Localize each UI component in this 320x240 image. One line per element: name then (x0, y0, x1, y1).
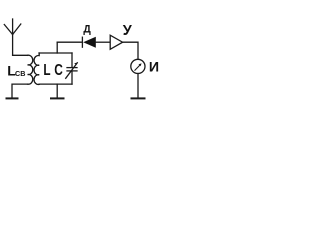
wire meter to ground (137, 74, 139, 98)
wire antenna to Lcb top (13, 54, 28, 56)
ground (antenna side) (7, 97, 18, 99)
svg-text:СВ: СВ (15, 69, 25, 78)
ground (middle) (51, 97, 64, 99)
svg-text:Д: Д (83, 23, 91, 35)
wire diode to amplifier (96, 41, 110, 43)
inductor Lсв (coupling winding) (28, 55, 33, 84)
wire tank top to diode line (56, 42, 58, 53)
antenna (4, 19, 21, 55)
svg-text:И: И (149, 60, 159, 75)
wire tank bottom (39, 83, 72, 85)
indicator И (meter) (131, 59, 145, 73)
svg-text:L: L (43, 62, 50, 79)
wire Lcb bottom to ground leg (12, 84, 28, 97)
op-amp У (amplifier triangle) (110, 35, 122, 49)
diode Д (82, 37, 95, 48)
wire tank top (39, 52, 72, 54)
wire tank to ground (middle) (56, 84, 58, 97)
svg-text:C: C (54, 62, 63, 79)
ground (meter side) (132, 97, 145, 99)
capacitor C (variable) right branch (66, 53, 78, 84)
wire to diode (57, 41, 82, 43)
wire amplifier to corner and down (123, 42, 138, 59)
inductor L (tank winding) (34, 53, 39, 84)
svg-text:У: У (123, 23, 133, 39)
